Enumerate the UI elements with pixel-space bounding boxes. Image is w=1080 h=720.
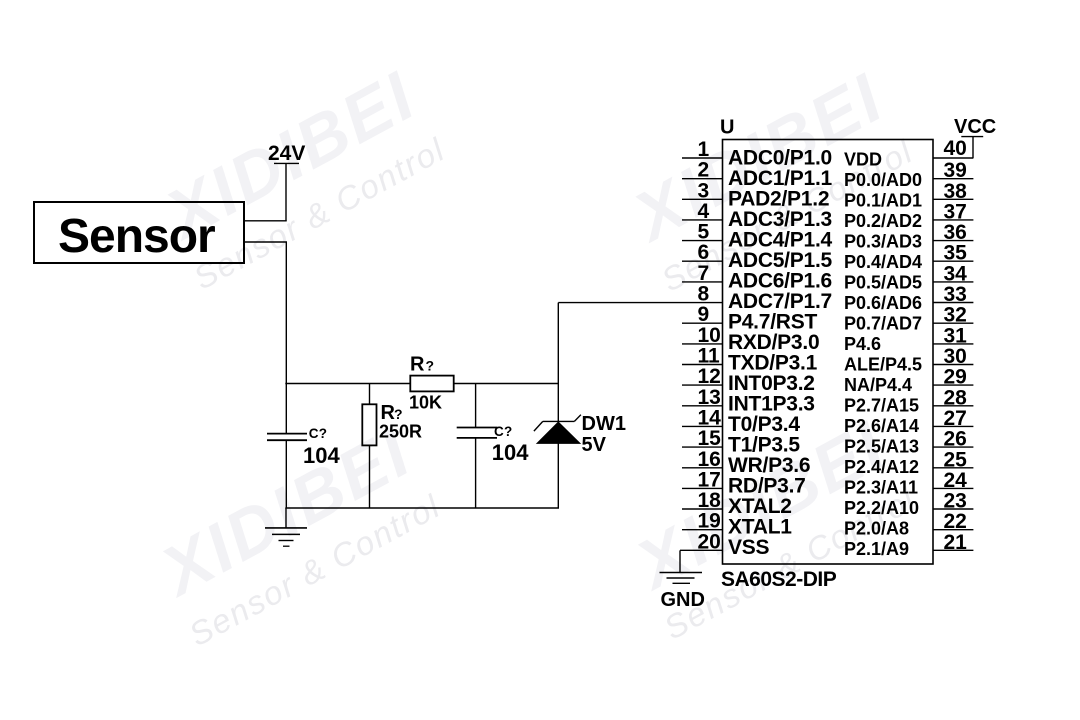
svg-text:P2.5/A13: P2.5/A13 — [844, 437, 919, 457]
svg-text:5: 5 — [698, 221, 710, 244]
svg-text:P2.2/A10: P2.2/A10 — [844, 498, 919, 518]
svg-text:P2.6/A14: P2.6/A14 — [844, 416, 919, 436]
svg-text:30: 30 — [944, 345, 967, 368]
svg-text:NA/P4.4: NA/P4.4 — [844, 375, 912, 395]
svg-text:P2.7/A15: P2.7/A15 — [844, 396, 919, 416]
svg-text:P0.4/AD4: P0.4/AD4 — [844, 252, 922, 272]
svg-text:SA60S2-DIP: SA60S2-DIP — [721, 568, 837, 591]
svg-text:11: 11 — [698, 345, 721, 368]
svg-text:25: 25 — [944, 448, 968, 471]
svg-text:?: ? — [426, 358, 435, 374]
svg-text:2: 2 — [698, 159, 710, 182]
svg-text:23: 23 — [944, 490, 967, 513]
svg-text:C: C — [309, 426, 319, 441]
svg-text:P0.0/AD0: P0.0/AD0 — [844, 170, 922, 190]
svg-text:9: 9 — [698, 303, 710, 326]
svg-text:17: 17 — [698, 468, 721, 491]
svg-text:P2.4/A12: P2.4/A12 — [844, 457, 919, 477]
svg-text:3: 3 — [698, 179, 710, 202]
svg-text:?: ? — [394, 406, 403, 422]
svg-text:40: 40 — [944, 137, 967, 160]
svg-text:27: 27 — [944, 407, 967, 430]
svg-text:VSS: VSS — [728, 536, 770, 559]
svg-text:24V: 24V — [268, 142, 305, 165]
svg-text:36: 36 — [944, 221, 967, 244]
svg-text:ALE/P4.5: ALE/P4.5 — [844, 355, 922, 375]
svg-text:?: ? — [504, 424, 512, 439]
svg-text:VDD: VDD — [844, 150, 882, 170]
svg-text:26: 26 — [944, 428, 967, 451]
svg-text:P0.1/AD1: P0.1/AD1 — [844, 191, 922, 211]
svg-text:32: 32 — [944, 304, 967, 327]
svg-text:10: 10 — [698, 324, 721, 347]
svg-text:34: 34 — [944, 262, 968, 285]
svg-text:6: 6 — [698, 241, 710, 264]
svg-text:P0.2/AD2: P0.2/AD2 — [844, 211, 922, 231]
svg-text:?: ? — [319, 426, 327, 441]
svg-text:20: 20 — [698, 530, 721, 553]
svg-text:29: 29 — [944, 366, 967, 389]
svg-text:P4.6: P4.6 — [844, 334, 881, 354]
svg-text:37: 37 — [944, 200, 967, 223]
svg-text:14: 14 — [698, 406, 722, 429]
svg-text:4: 4 — [698, 200, 710, 223]
svg-text:24: 24 — [944, 469, 968, 492]
svg-text:18: 18 — [698, 489, 722, 512]
svg-text:21: 21 — [944, 531, 968, 554]
svg-text:104: 104 — [303, 443, 340, 468]
svg-text:DW1: DW1 — [582, 413, 626, 435]
svg-text:P0.6/AD6: P0.6/AD6 — [844, 293, 922, 313]
svg-text:7: 7 — [698, 262, 710, 285]
svg-text:31: 31 — [944, 324, 968, 347]
svg-text:16: 16 — [698, 448, 721, 471]
svg-text:33: 33 — [944, 283, 967, 306]
svg-text:22: 22 — [944, 510, 967, 533]
svg-text:250R: 250R — [379, 422, 422, 442]
svg-text:R: R — [410, 354, 425, 376]
svg-text:35: 35 — [944, 242, 968, 265]
svg-text:VCC: VCC — [954, 116, 996, 138]
svg-text:10K: 10K — [409, 393, 442, 413]
svg-text:P0.7/AD7: P0.7/AD7 — [844, 314, 922, 334]
svg-text:P2.1/A9: P2.1/A9 — [844, 539, 909, 559]
svg-text:GND: GND — [661, 589, 705, 611]
svg-text:U: U — [720, 117, 734, 139]
svg-text:28: 28 — [944, 386, 968, 409]
svg-text:C: C — [494, 424, 504, 439]
svg-text:P0.5/AD5: P0.5/AD5 — [844, 273, 922, 293]
svg-text:13: 13 — [698, 386, 721, 409]
svg-text:12: 12 — [698, 365, 721, 388]
svg-text:104: 104 — [492, 440, 529, 465]
svg-text:1: 1 — [698, 138, 710, 161]
svg-text:8: 8 — [698, 283, 710, 306]
svg-text:5V: 5V — [582, 434, 607, 456]
svg-text:Sensor: Sensor — [58, 210, 215, 263]
svg-text:P2.0/A8: P2.0/A8 — [844, 519, 909, 539]
svg-text:19: 19 — [698, 510, 721, 533]
svg-text:P0.3/AD3: P0.3/AD3 — [844, 232, 922, 252]
svg-text:39: 39 — [944, 159, 967, 182]
svg-text:38: 38 — [944, 180, 968, 203]
svg-text:P2.3/A11: P2.3/A11 — [844, 478, 918, 498]
svg-text:15: 15 — [698, 427, 722, 450]
